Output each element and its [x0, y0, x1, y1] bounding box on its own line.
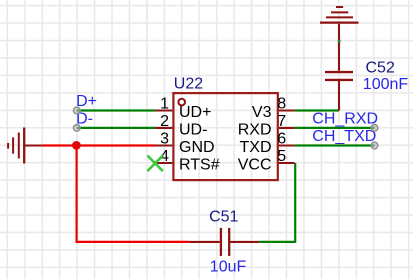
pin 6: [279, 144, 295, 146]
svg-text:UD-: UD-: [179, 122, 207, 139]
ground symbol (top earth ground): [320, 7, 359, 23]
pin 5: [279, 162, 295, 164]
wire VCC net (green, bottom right): [259, 163, 295, 242]
wire V3 net (green, pin 8 to C52): [295, 109, 339, 111]
pin 8: [279, 109, 295, 111]
dangling end dot CH_RXD: [371, 125, 378, 132]
compile marker dot (green, on C52 stem): [338, 40, 341, 43]
wire D- (green): [77, 127, 155, 129]
svg-text:5: 5: [277, 148, 286, 165]
svg-text:100nF: 100nF: [363, 76, 409, 93]
IC U22 body: [173, 93, 277, 180]
svg-text:RTS#: RTS#: [179, 157, 220, 174]
svg-text:TXD: TXD: [240, 139, 272, 156]
svg-text:U22: U22: [174, 76, 203, 93]
svg-text:RXD: RXD: [238, 122, 272, 139]
ground symbol (left earth ground): [8, 128, 42, 164]
pin 3: [155, 144, 172, 146]
wire GND net vertical down and bottom horizontal: [77, 146, 190, 242]
svg-text:UD+: UD+: [179, 104, 211, 121]
svg-text:VCC: VCC: [238, 157, 272, 174]
dangling end dot D-: [73, 125, 80, 132]
pin 1: [155, 109, 172, 111]
wire CH_TXD (green): [295, 144, 375, 146]
capacitor C51: [190, 228, 260, 256]
wire V3 net vertical (dark red): [338, 81, 340, 111]
svg-text:3: 3: [160, 130, 169, 147]
svg-text:6: 6: [277, 130, 286, 147]
svg-text:2: 2: [160, 113, 169, 130]
pin 1 indicator dot: [178, 99, 185, 106]
svg-text:7: 7: [277, 113, 286, 130]
svg-text:1: 1: [160, 95, 169, 112]
dangling end dot D+: [73, 107, 80, 114]
svg-text:C51: C51: [209, 208, 238, 225]
svg-text:CH_TXD: CH_TXD: [312, 128, 376, 145]
svg-text:C52: C52: [366, 59, 395, 76]
svg-text:10uF: 10uF: [210, 258, 247, 275]
svg-text:V3: V3: [252, 104, 272, 121]
pin 2: [155, 127, 172, 129]
pin 7: [279, 127, 295, 129]
svg-text:GND: GND: [179, 139, 215, 156]
wire GND net (red, left): [42, 144, 155, 146]
svg-text:8: 8: [277, 95, 286, 112]
wire D+ (green): [77, 109, 155, 111]
wire CH_RXD (green): [295, 127, 375, 129]
pin 4: [155, 162, 172, 164]
dangling end dot CH_TXD: [371, 142, 378, 149]
junction: [72, 141, 81, 150]
capacitor C52: [325, 24, 353, 80]
no-connect X on pin 4: [147, 156, 162, 172]
svg-text:CH_RXD: CH_RXD: [312, 111, 378, 128]
